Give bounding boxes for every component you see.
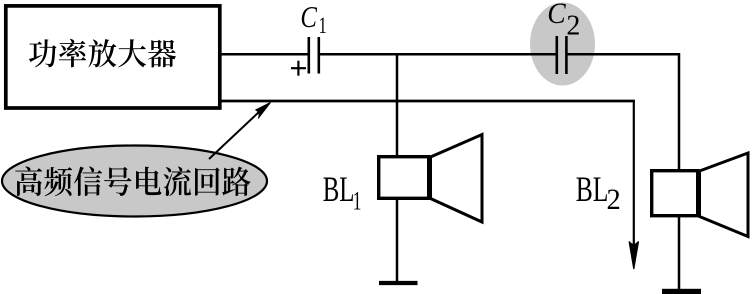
callout text 高频信号电流回路	[15, 166, 250, 196]
power amplifier label 功率放大器	[29, 39, 176, 68]
capacitor C2	[557, 36, 567, 74]
wire: amplifier output to C1 left plate	[220, 53, 308, 56]
wire: C1 right plate to BL1 junction to C2 left plate	[320, 53, 556, 56]
callout arrow pointing to lower wire	[209, 103, 271, 160]
svg-text:BL: BL	[576, 169, 609, 209]
power amplifier box U1 (功率放大器)	[6, 6, 220, 108]
label C1	[300, 0, 326, 38]
svg-text:1: 1	[319, 13, 327, 38]
svg-text:2: 2	[607, 184, 621, 217]
svg-text:2: 2	[566, 11, 580, 42]
callout ellipse: 高频信号电流回路 (high-frequency signal current loop)	[2, 146, 267, 217]
wire: C2 right plate right and down to BL2	[567, 54, 679, 289]
svg-text:BL: BL	[323, 168, 355, 209]
wire: amplifier lower output, right then down, ending in arrow	[220, 100, 635, 103]
speaker BL2	[652, 153, 748, 237]
ground (BL1)	[379, 281, 418, 285]
wire: junction down through BL1 to ground	[396, 54, 399, 283]
label C2	[547, 0, 580, 42]
label BL1	[323, 168, 362, 215]
ground (BL2)	[662, 289, 701, 294]
capacitor C1 (electrolytic)	[309, 37, 319, 74]
svg-text:C: C	[547, 0, 566, 30]
label BL2	[576, 169, 621, 217]
highlight ellipse around capacitor C2	[530, 3, 595, 86]
svg-text:C: C	[300, 0, 317, 34]
polarity + mark of C1	[291, 61, 306, 76]
arrowhead (current direction, down)	[629, 242, 638, 270]
speaker BL1	[379, 135, 482, 223]
svg-text:1: 1	[353, 186, 362, 215]
